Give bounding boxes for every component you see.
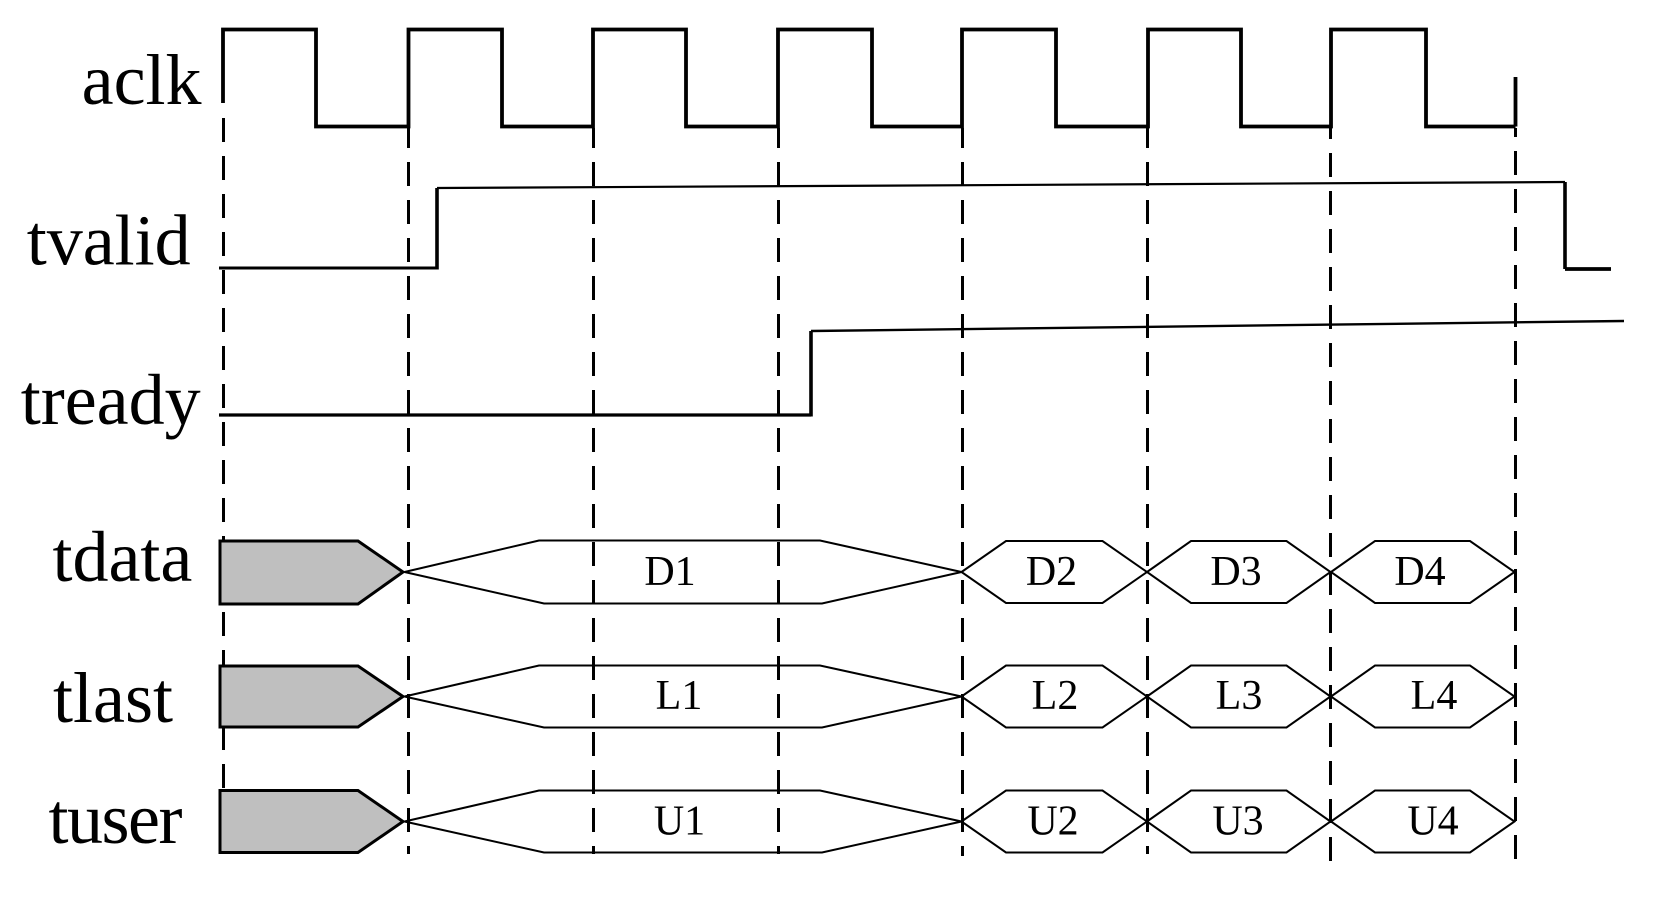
tvalid low tail	[1565, 267, 1611, 271]
tuser undefined bus (gray pentagon)	[220, 791, 403, 853]
dashed gridline at clock edge 6 (x=1147.5)	[1146, 128, 1149, 854]
dashed gridline at clock edge 2 (x=408)	[407, 128, 410, 854]
svg-text:D2: D2	[1026, 549, 1077, 595]
tready high segment (slight slope)	[811, 321, 1624, 331]
svg-text:D3: D3	[1210, 549, 1261, 595]
tuser bus value U2 hexagon	[962, 791, 1148, 853]
svg-text:tuser: tuser	[49, 779, 183, 859]
svg-text:U2: U2	[1027, 799, 1078, 845]
tlast bus value L1 hexagon	[405, 666, 962, 728]
svg-text:L1: L1	[656, 673, 703, 719]
svg-text:D4: D4	[1394, 549, 1445, 595]
tdata bus value D2 hexagon	[962, 541, 1148, 603]
tvalid high segment (slight slope)	[437, 182, 1565, 188]
tuser bus value U4 hexagon	[1331, 791, 1515, 853]
dashed gridline at clock edge 3 (x=593)	[592, 128, 595, 854]
tlast bus value L3 hexagon	[1147, 666, 1331, 728]
svg-text:L2: L2	[1032, 673, 1079, 719]
tlast undefined bus (gray pentagon)	[220, 666, 403, 727]
tuser bus value U3 hexagon	[1147, 791, 1331, 853]
tready rising edge	[809, 331, 813, 417]
dashed gridline at clock edge 1 (x=223)	[222, 117, 225, 854]
svg-text:U4: U4	[1407, 799, 1458, 845]
dashed gridline at clock edge 8 (x=1515)	[1514, 128, 1517, 865]
tdata bus value D1 hexagon	[405, 541, 962, 604]
clock waveform aclk	[223, 30, 1516, 127]
svg-text:tready: tready	[21, 360, 201, 440]
dashed gridline at clock edge 5 (x=962)	[961, 128, 964, 856]
svg-text:L3: L3	[1216, 673, 1263, 719]
svg-text:D1: D1	[644, 549, 695, 595]
tlast bus value L2 hexagon	[962, 666, 1148, 728]
tready low segment	[219, 413, 811, 416]
svg-text:aclk: aclk	[82, 40, 202, 120]
tvalid falling edge	[1563, 182, 1567, 269]
svg-text:tvalid: tvalid	[27, 201, 191, 281]
dashed gridline at clock edge 4 (x=778)	[777, 128, 780, 854]
tvalid rising edge	[435, 188, 439, 270]
tdata bus value D3 hexagon	[1147, 541, 1331, 603]
tdata bus value D4 hexagon	[1331, 541, 1515, 603]
tuser bus value U1 hexagon	[405, 791, 962, 853]
svg-text:U1: U1	[654, 799, 705, 845]
tvalid low segment	[219, 267, 437, 270]
svg-text:L4: L4	[1411, 673, 1458, 719]
svg-text:tlast: tlast	[53, 658, 173, 738]
svg-text:U3: U3	[1212, 799, 1263, 845]
dashed gridline at clock edge 7 (x=1330.5)	[1329, 128, 1332, 863]
clock end tick	[1514, 77, 1518, 127]
tlast bus value L4 hexagon	[1331, 666, 1515, 728]
tdata undefined bus (gray pentagon)	[220, 541, 403, 604]
svg-text:tdata: tdata	[52, 517, 192, 597]
